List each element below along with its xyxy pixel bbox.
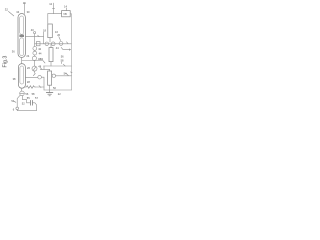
svg-text:56: 56: [25, 92, 28, 96]
svg-text:26: 26: [27, 66, 30, 70]
svg-text:54: 54: [11, 99, 14, 103]
svg-text:50: 50: [53, 86, 56, 90]
svg-text:VB: VB: [63, 12, 67, 16]
svg-text:44: 44: [39, 52, 42, 56]
svg-text:55: 55: [27, 96, 30, 100]
svg-text:62: 62: [40, 57, 43, 61]
svg-text:6: 6: [13, 108, 15, 112]
svg-text:40: 40: [31, 28, 34, 32]
svg-text:12: 12: [49, 2, 52, 6]
svg-text:28: 28: [27, 80, 30, 84]
svg-text:Fig.3: Fig.3: [2, 56, 8, 68]
svg-text:48: 48: [38, 65, 41, 69]
svg-text:56: 56: [61, 55, 64, 59]
svg-text:42: 42: [38, 47, 41, 51]
svg-text:36: 36: [12, 50, 15, 54]
svg-text:24: 24: [26, 54, 29, 58]
svg-text:14: 14: [23, 1, 26, 5]
svg-text:34: 34: [16, 10, 19, 14]
svg-text:20: 20: [57, 33, 60, 37]
svg-text:22: 22: [58, 92, 61, 96]
svg-text:32: 32: [5, 7, 9, 11]
svg-text:52: 52: [22, 102, 25, 106]
svg-text:57: 57: [35, 96, 38, 100]
svg-text:14: 14: [64, 4, 67, 8]
svg-text:44: 44: [56, 46, 59, 50]
svg-text:30: 30: [27, 10, 30, 14]
svg-text:18: 18: [43, 29, 46, 33]
svg-text:58: 58: [32, 92, 35, 96]
svg-text:58: 58: [61, 58, 64, 62]
svg-text:38: 38: [13, 77, 16, 81]
